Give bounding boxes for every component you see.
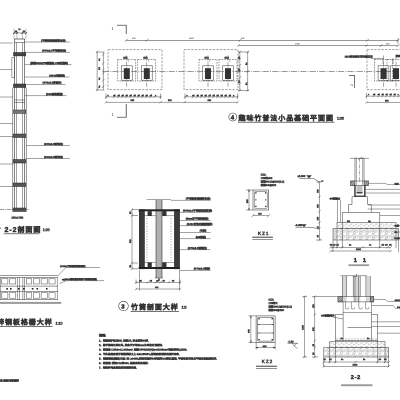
dashed footprint rect 1 [108,50,162,90]
ground dash-dot line [0,209,29,211]
bolt label [330,196,341,222]
left bracket plate [12,58,15,78]
svg-text:2: 2 [350,84,354,86]
footing pad GZ5 [375,56,393,88]
svg-text:箍筋Φ6@200: 箍筋Φ6@200 [269,308,285,312]
top row cells [2,279,55,299]
svg-text:配筋4Φ12@200(1:1): 配筋4Φ12@200(1:1) [261,180,285,184]
anchor box with hooked bolts [343,302,371,313]
inner dotted lines [147,218,171,261]
bottom dim row2 [105,99,239,103]
svg-text:(不锈钢管帽刷蓝色漆): (不锈钢管帽刷蓝色漆) [41,38,66,42]
bottom dim [255,343,276,350]
svg-text:(Φ76x3.0不锈钢管柱): (Φ76x3.0不锈钢管柱) [42,49,66,53]
svg-text:1200: 1200 [302,324,305,330]
bottom dims rect1 row1 [105,94,162,100]
anchor box [354,186,365,197]
rebar mesh label [321,313,343,319]
left dims 2-2 [302,295,331,358]
pole bottom tick [155,278,163,282]
title plan [229,113,344,122]
title 2-2 section [341,375,373,386]
middle band studs [6,288,47,290]
svg-text:3000: 3000 [295,42,301,45]
svg-text:2-2: 2-2 [351,375,361,381]
svg-text:C10M: C10M [394,237,400,240]
top dimension of column [13,28,27,39]
benchmark lower [295,224,319,229]
svg-text:1:30: 1:30 [337,117,344,121]
svg-text:1N: 1N [98,67,101,70]
right leaders 2-2 [372,299,400,333]
svg-text:75: 75 [18,28,20,31]
labels above rect3 [345,54,400,64]
svg-text:25: 25 [15,30,17,33]
svg-text:1:20: 1:20 [43,228,50,232]
left vertical dim [316,179,324,241]
horizontal centerline [103,71,399,73]
svg-text:(Φ76x3.8钢管柱): (Φ76x3.8钢管柱) [43,81,62,85]
title bamboo [119,301,187,311]
svg-text:(4Φ16钢筋笼): (4Φ16钢筋笼) [49,73,65,77]
column cap [15,39,25,43]
tube walls [139,209,180,269]
svg-text:(Φ25x2不锈钢管格栅面层): (Φ25x2不锈钢管格栅面层) [60,265,86,268]
bottom dims rect2 row1 [184,94,239,100]
svg-text:-1.50: -1.50 [288,340,294,343]
central pole [147,200,171,278]
grating title [0,318,63,327]
section marker 1 bottom [112,104,127,117]
svg-text:4Φ12: 4Φ12 [395,299,400,302]
svg-text:8a垫: 8a垫 [395,224,400,227]
svg-text:M10螺栓固定花岗岩压顶: M10螺栓固定花岗岩压顶 [345,55,373,59]
svg-text:1:5: 1:5 [182,306,187,310]
second dim line right [237,42,399,47]
svg-text:花岗岩: 花岗岩 [396,54,400,58]
annotation text block [269,299,293,313]
left dim [248,315,256,344]
right leaders [366,183,400,232]
footing bottom ticks [337,338,376,341]
svg-text:(Φ76x3.0钢管柱): (Φ76x3.0钢管柱) [44,142,63,146]
bottom dims 2-2 [323,341,390,368]
column square [253,190,269,210]
svg-text:(不锈钢管帽刷蓝色漆): (不锈钢管帽刷蓝色漆) [186,197,211,201]
svg-text:1:10: 1:10 [56,321,63,325]
svg-text:(Φ76x3.0钢管柱): (Φ76x3.0钢管柱) [44,155,63,159]
svg-text:2-2剖面图: 2-2剖面图 [5,225,42,234]
dashed footprint rect 2 [184,50,238,90]
svg-text:±0.000: ±0.000 [298,175,306,178]
bottom dims 1-1 [329,223,398,253]
svg-text:(预埋Φ20x275钢筋条,C25砼灌实): (预埋Φ20x275钢筋条,C25砼灌实) [30,61,68,65]
KZ1 label [252,231,273,240]
svg-text:8500: 8500 [189,37,195,40]
bottom dims of tube [135,270,181,290]
leaders and labels [58,265,104,284]
top slab speckled [337,223,396,229]
svg-text:5、钢筋锚固(搭接)长度: 柱 Ld=35d,焊接双面焊5d: 5、钢筋锚固(搭接)长度: 柱 Ld=35d,焊接双面焊5d单面焊10d绑扎搭接… [99,356,217,360]
svg-text:说明:: 说明: [99,334,106,338]
svg-text:KZ2: KZ2 [262,359,273,364]
svg-text:3000: 3000 [353,363,359,366]
left dim of tube [129,208,138,270]
svg-text:(M8螺栓): (M8螺栓) [196,235,206,239]
collar bands on column [13,53,26,212]
pole [350,157,369,193]
svg-text:KZ1: KZ1 [258,231,269,236]
svg-text:锌钢板格栅大样: 锌钢板格栅大样 [0,318,53,327]
left dim with arrows [246,189,253,211]
footing pad GZ2 [138,56,156,88]
right leader lines with labels [25,42,72,159]
svg-text:(Φ76x3.0不锈钢管刷蓝漆): (Φ76x3.0不锈钢管刷蓝漆) [183,209,212,213]
svg-text:C25砼X: C25砼X [269,301,278,305]
footing pad GZ3 [199,56,217,88]
svg-text:趣味竹普法小品基础平面图: 趣味竹普法小品基础平面图 [238,113,334,122]
svg-text:(Φ76x3.0钢管柱): (Φ76x3.0钢管柱) [188,246,207,250]
annotation text block [261,174,285,188]
right leaders of tube [171,200,211,270]
svg-text:2、除平标高以米计外, 其余尺寸均以mm为单位计量标注.: 2、除平标高以米计外, 其余尺寸均以mm为单位计量标注. [99,343,163,347]
collar 2-2 [330,297,374,302]
svg-text:(2Φ6加劲箍筋): (2Φ6加劲箍筋) [46,92,63,96]
svg-text:竹筒剖面大样: 竹筒剖面大样 [130,302,179,311]
svg-text:C25砼400: C25砼400 [261,176,273,180]
title 2-2 [0,225,50,234]
svg-text:-0.450: -0.450 [295,224,303,227]
left mini dim of rect1 [96,51,105,91]
svg-text:-: - [0,226,1,230]
bottom dim [252,213,270,218]
svg-text:(竹筒): (竹筒) [200,229,207,233]
section marker 2 [349,75,355,88]
title 1-1 [348,258,369,266]
svg-text:250x175B: 250x175B [12,217,24,220]
svg-text:3000: 3000 [356,248,362,251]
footing pad GZ1 [118,56,136,88]
svg-text:(40x4镀锌扁钢骨架不锈钢板面层): (40x4镀锌扁钢骨架不锈钢板面层) [65,278,98,281]
svg-text:6、砼垫层: 素砼C10厚100, 基底夯实处理好.: 6、砼垫层: 素砼C10厚100, 基底夯实处理好. [99,361,149,365]
column rect [256,316,275,343]
KZ2 label [256,359,277,369]
svg-text:注:钢板均需镀锌: 注:钢板均需镀锌 [0,379,19,383]
right dims of rect2 [237,51,249,92]
svg-text:4、平头基底应置于硬塑残积土上 fak≥150kPa,否则应: 4、平头基底应置于硬塑残积土上 fak≥150kPa,否则应做置换处理并夯实. [99,352,180,356]
svg-text:7、钢构件均应做防腐防锈漆处理.: 7、钢构件均应做防腐防锈漆处理. [99,365,137,369]
footing pad GZ4 [219,56,237,88]
svg-text:箍筋Φ6@200: 箍筋Φ6@200 [261,183,277,187]
benchmark top [298,175,320,182]
svg-text:(3mm厚不锈钢板帽): (3mm厚不锈钢板帽) [186,217,209,221]
svg-text:1 1: 1 1 [354,258,368,264]
svg-text:1、钢筋保护层:柱35, 梁板25, 承台基础40厚.: 1、钢筋保护层:柱35, 梁板25, 承台基础40厚. [99,338,149,342]
level marker -1.50 [288,340,299,349]
slab speckled 2-2 [330,342,385,348]
dashed footprint rect 3 (cut at right edge) [367,50,400,90]
bottom dims rect3 [366,93,400,104]
svg-text:(Φ76x3.0钢管): (Φ76x3.0钢管) [194,267,211,271]
footing block [335,313,377,341]
svg-text:Φ8钢筋网片: Φ8钢筋网片 [321,313,335,317]
base gray bar [0,302,61,304]
posts [1,277,57,299]
pedestal steps [342,197,380,223]
fixing tabs [148,211,167,267]
svg-text:3、砼强度 C25:fc=11.9N/mm², 钢筋:HPB: 3、砼强度 C25:fc=11.9N/mm², 钢筋:HPB235(Φ)fy=2… [99,347,187,351]
collar flanges [351,181,369,186]
gravel 2-2 [324,348,389,358]
footing pad GZ6 [387,56,400,88]
top dim line [125,37,400,44]
svg-text:25: 25 [23,30,25,33]
svg-text:配筋4Φ12@200(1:1): 配筋4Φ12@200(1:1) [269,305,293,309]
top chords [0,276,58,300]
svg-text:(Φ110竹筒内壁刷清漆): (Φ110竹筒内壁刷清漆) [187,222,213,226]
gravel layer [333,229,399,241]
svg-text:Φ8螺栓M: Φ8螺栓M [330,196,341,200]
column body verticals [13,39,26,210]
svg-text:≡M: ≡M [62,279,65,282]
section marker 1 top [112,25,127,34]
poles/tubes [340,274,370,302]
left leader ticks [0,43,13,187]
